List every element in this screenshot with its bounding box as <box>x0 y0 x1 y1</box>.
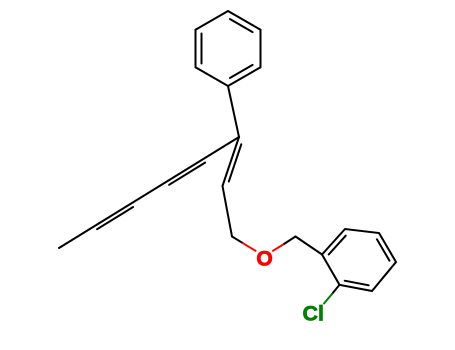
ether bond V1-O, red half <box>243 243 256 251</box>
ether bond O-V2, red half <box>273 244 285 251</box>
bond R2 to Cl, black half <box>332 285 340 294</box>
svg-text:O: O <box>256 248 272 271</box>
double bond A1=A2 <box>223 137 242 186</box>
bond A2 to CH2 carbon V1 <box>223 186 233 237</box>
diyne chain backbone from A1 down-left <box>59 137 239 248</box>
bond V2 (benzylic CH2) to ring R2 <box>296 237 323 255</box>
bond R1 to branch carbon A1 <box>228 86 239 137</box>
bond R2 to Cl, green half <box>324 294 332 304</box>
chlorophenyl ring R2 (right) <box>322 229 396 291</box>
ether bond V1-O, black half <box>232 237 243 244</box>
triple bond mark 2 <box>97 207 133 229</box>
triple bond mark 1 <box>169 163 205 185</box>
svg-text:Cl: Cl <box>303 302 325 326</box>
ether bond O-V2, black half <box>285 237 296 244</box>
phenyl ring R1 (top) <box>196 11 261 86</box>
